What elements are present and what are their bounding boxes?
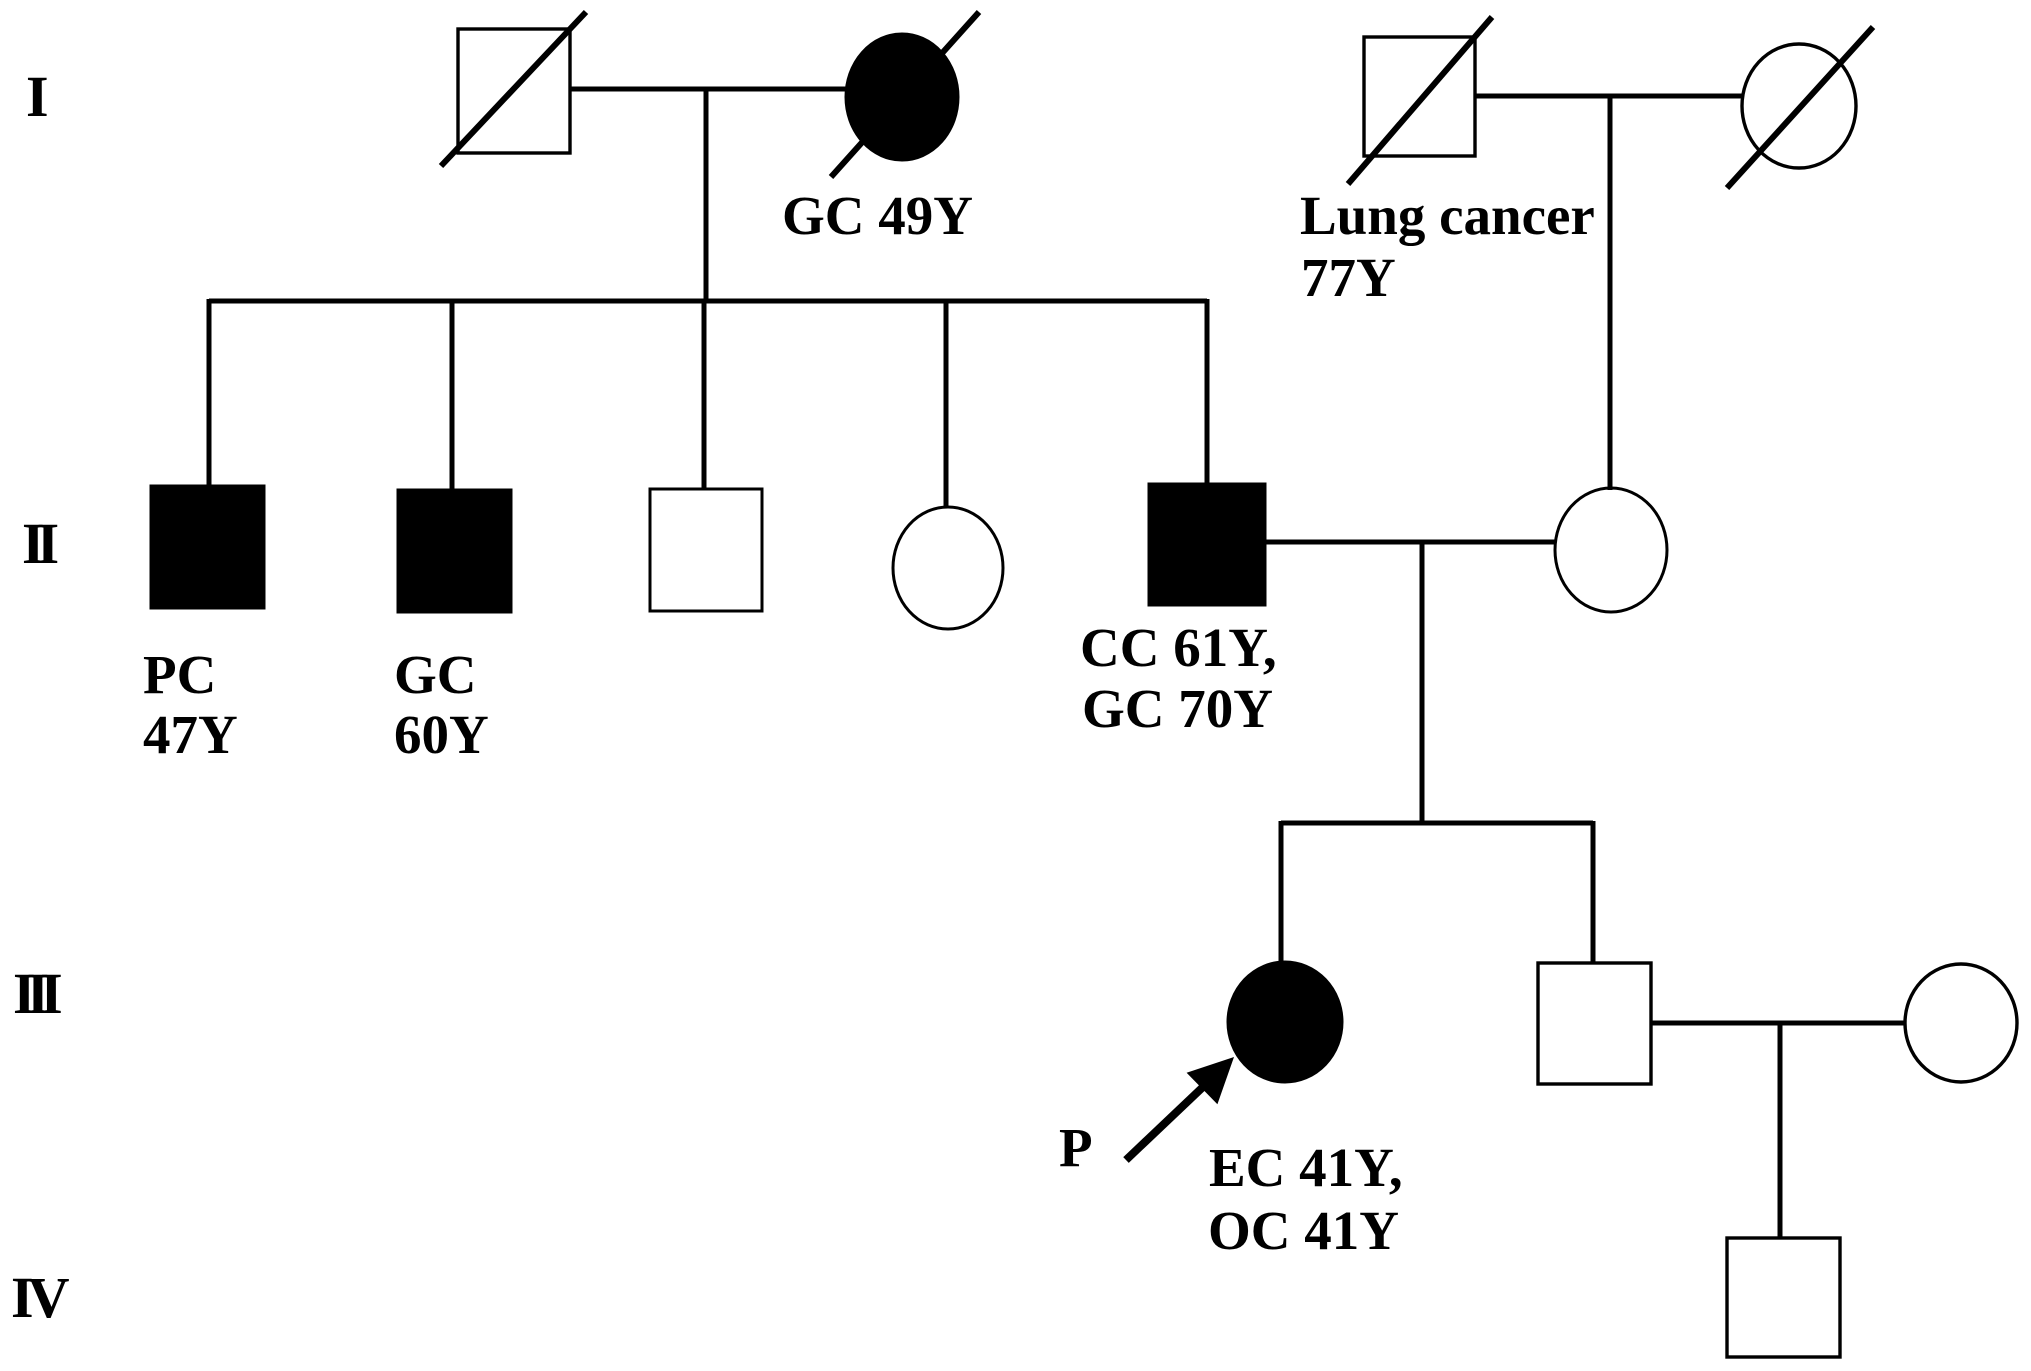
wire drop to III-2 bbox=[1591, 821, 1596, 963]
slash I-3 deceased bbox=[1348, 17, 1492, 184]
individual II-2 affected male filled square bbox=[398, 490, 511, 612]
svg-text:47Y: 47Y bbox=[143, 704, 238, 765]
svg-text:Lung cancer: Lung cancer bbox=[1300, 185, 1595, 246]
svg-text:60Y: 60Y bbox=[394, 704, 489, 765]
proband arrow bbox=[1126, 1057, 1234, 1160]
individual III-1 proband affected female filled circle bbox=[1228, 962, 1342, 1082]
svg-text:PC: PC bbox=[143, 644, 216, 705]
svg-text:EC 41Y,: EC 41Y, bbox=[1209, 1137, 1403, 1198]
wire sibship line generation III bbox=[1281, 821, 1593, 826]
wire descent from II couple bbox=[1420, 542, 1425, 823]
svg-text:IV: IV bbox=[11, 1265, 70, 1330]
individual II-6 unaffected female circle wife of CC bbox=[1555, 488, 1667, 612]
wire sibship line generation II bbox=[209, 299, 1207, 304]
wire descent from I right couple bbox=[1608, 96, 1613, 490]
svg-text:I: I bbox=[26, 64, 49, 129]
slash I-4 deceased bbox=[1727, 27, 1873, 188]
svg-text:P: P bbox=[1059, 1117, 1093, 1178]
individual III-2 unaffected male square bbox=[1538, 963, 1651, 1084]
individual II-3 unaffected male square bbox=[650, 489, 762, 611]
wire drop to II-4 bbox=[944, 299, 949, 507]
wire marriage line I left couple bbox=[570, 87, 846, 92]
wire marriage line II couple bbox=[1265, 540, 1555, 545]
individual II-1 affected male filled square bbox=[151, 486, 264, 608]
individual II-5 affected male filled square CC bbox=[1149, 484, 1265, 605]
individual IV-1 unaffected male square bbox=[1727, 1238, 1840, 1357]
individual III-3 unaffected female circle bbox=[1905, 964, 2017, 1082]
wire descent from III couple bbox=[1778, 1023, 1783, 1238]
svg-text:OC 41Y: OC 41Y bbox=[1208, 1200, 1399, 1261]
wire drop to II-5 bbox=[1205, 299, 1210, 484]
individual II-4 unaffected female circle bbox=[893, 507, 1003, 629]
svg-text:GC 49Y: GC 49Y bbox=[782, 185, 973, 246]
svg-text:GC: GC bbox=[394, 644, 477, 705]
individual I-3 deceased male square lung cancer bbox=[1364, 37, 1475, 156]
individual I-2 affected deceased female filled circle bbox=[846, 34, 958, 160]
individual I-4 deceased female circle bbox=[1742, 44, 1856, 168]
wire drop to III-1 proband bbox=[1279, 821, 1284, 962]
wire descent from I left couple bbox=[704, 89, 709, 301]
svg-text:GC 70Y: GC 70Y bbox=[1082, 678, 1273, 739]
wire marriage line III couple bbox=[1651, 1021, 1905, 1026]
wire drop to II-1 bbox=[207, 299, 212, 486]
wire drop to II-2 bbox=[450, 299, 455, 490]
wire drop to II-3 bbox=[702, 299, 707, 489]
slash I-2 deceased bbox=[831, 12, 979, 177]
individual I-1 deceased male square bbox=[458, 29, 570, 153]
svg-text:77Y: 77Y bbox=[1301, 247, 1396, 308]
slash I-1 deceased bbox=[441, 12, 586, 166]
svg-text:CC 61Y,: CC 61Y, bbox=[1080, 617, 1277, 678]
wire marriage line I right couple bbox=[1475, 94, 1742, 99]
